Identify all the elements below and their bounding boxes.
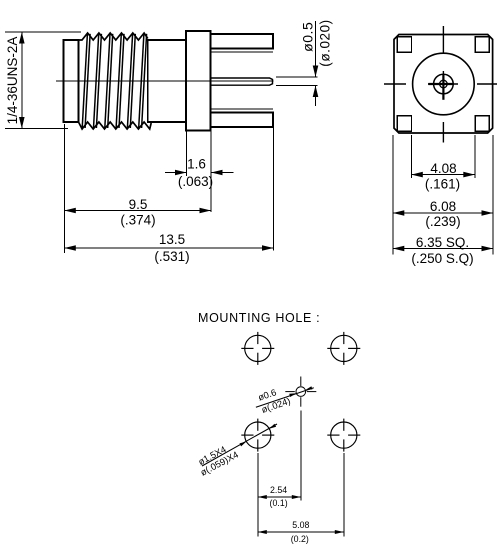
dimension line 13.5 <box>64 247 273 249</box>
arrow o0.6 upper-right <box>305 386 312 390</box>
arrow left 9.5 <box>64 208 76 214</box>
middle circle <box>434 74 454 94</box>
dimension line 9.5 <box>64 210 211 212</box>
insulator bottom edge <box>211 108 274 110</box>
dimension line right part <box>211 172 234 174</box>
svg-text:(0.1): (0.1) <box>270 498 288 508</box>
arrow left to flange <box>211 170 223 176</box>
thread helix diagonals <box>82 34 146 128</box>
extension line leg right <box>273 128 275 251</box>
svg-text:6.08: 6.08 <box>430 199 456 214</box>
thread bottom zigzag <box>79 122 152 129</box>
extension line pin bottom <box>276 85 318 87</box>
extension line square right <box>492 135 494 255</box>
svg-text:1.6: 1.6 <box>187 157 206 172</box>
arrow o1.5 upper-right <box>269 424 276 429</box>
hole top-right <box>327 332 360 365</box>
arrow right 4.08 <box>463 172 475 178</box>
extension line 4.08 right <box>474 135 476 178</box>
big circle <box>413 53 475 115</box>
dimension line above <box>315 21 317 77</box>
flange <box>186 31 211 131</box>
arrow o1.5 lower-left <box>240 442 247 447</box>
svg-text:2.54: 2.54 <box>270 485 287 495</box>
hole bottom-right <box>327 419 360 452</box>
svg-text:(ø.020): (ø.020) <box>318 19 333 66</box>
svg-text:5.08: 5.08 <box>292 520 309 530</box>
dimension line 6.35 <box>393 248 493 250</box>
dimension line 4.08 <box>411 174 475 176</box>
rear nut rectangle <box>64 40 79 122</box>
arrow down to pin <box>313 66 319 78</box>
svg-text:(.063): (.063) <box>178 174 213 189</box>
dimension line below <box>315 86 317 107</box>
extension line bottom thread <box>5 128 68 130</box>
svg-text:6.35 SQ.: 6.35 SQ. <box>416 235 469 250</box>
svg-text:4.08: 4.08 <box>430 161 456 176</box>
svg-text:13.5: 13.5 <box>159 232 185 247</box>
small center hole <box>285 377 316 407</box>
smooth body section <box>148 40 186 122</box>
extension line small hole <box>300 411 302 501</box>
arrow up to pin <box>313 86 319 98</box>
centerline side view <box>56 80 274 82</box>
arrow left 4.08 <box>411 172 423 178</box>
extension line pin top <box>276 76 318 78</box>
arrow o0.6 lower-left <box>289 393 296 397</box>
extension line hole left <box>257 453 259 537</box>
extension line 4.08 left <box>410 135 412 178</box>
leader o1.5X4 <box>202 424 277 466</box>
hole top-left <box>241 332 274 365</box>
svg-text:(.161): (.161) <box>425 177 460 192</box>
corner square top-left <box>397 37 411 52</box>
thread top zigzag <box>79 33 148 40</box>
extension line top thread <box>5 31 81 33</box>
small circle <box>440 80 448 88</box>
svg-text:ø0.5: ø0.5 <box>300 22 316 52</box>
horizontal centerline front view <box>384 83 497 85</box>
arrow right 9.5 <box>200 208 212 214</box>
extension line flange right <box>210 132 212 213</box>
dimension line 5.08 <box>258 531 344 533</box>
bold crosshair <box>428 74 453 100</box>
extension line hole right <box>343 453 345 537</box>
square flange outline <box>394 35 493 134</box>
arrow down <box>19 117 25 129</box>
corner square top-right <box>475 37 489 52</box>
arrow up <box>19 32 25 44</box>
hole bottom-left <box>241 419 274 452</box>
arrow right 2.54 <box>292 495 301 499</box>
svg-text:MOUNTING HOLE :: MOUNTING HOLE : <box>198 311 320 325</box>
dimension line left part <box>165 172 187 174</box>
svg-text:(0.2): (0.2) <box>291 534 309 544</box>
svg-text:(.250 S.Q): (.250 S.Q) <box>411 251 473 266</box>
insulator top edge <box>211 51 274 53</box>
corner square bottom-right <box>475 116 489 131</box>
top leg <box>211 34 274 49</box>
arrow right 6.08 <box>482 210 494 216</box>
extension line square left <box>392 135 394 255</box>
center pin <box>211 78 273 85</box>
leader o0.6 <box>256 388 314 408</box>
svg-text:1/4-36UNS-2A: 1/4-36UNS-2A <box>5 37 20 125</box>
arrow left 13.5 <box>64 245 76 251</box>
arrow left 6.35 <box>393 246 405 252</box>
bottom leg <box>211 113 274 128</box>
vertical centerline front view <box>442 26 444 143</box>
arrow right to flange <box>175 170 187 176</box>
arrow right 5.08 <box>335 530 344 534</box>
dimension line vertical <box>21 32 23 129</box>
extension line flange left <box>186 132 188 177</box>
corner square bottom-left <box>397 116 411 131</box>
dimension line 2.54 <box>258 496 301 498</box>
arrow right 6.35 <box>482 246 494 252</box>
svg-text:(.239): (.239) <box>425 214 460 229</box>
dimension line 6.08 <box>393 212 493 214</box>
arrow left 2.54 <box>258 495 267 499</box>
arrow left 6.08 <box>393 210 405 216</box>
arrow right 13.5 <box>262 245 274 251</box>
extension line body left <box>63 124 65 253</box>
svg-text:9.5: 9.5 <box>129 197 148 212</box>
svg-text:(.531): (.531) <box>154 249 189 264</box>
arrow left 5.08 <box>258 530 267 534</box>
svg-text:(.374): (.374) <box>120 212 155 227</box>
